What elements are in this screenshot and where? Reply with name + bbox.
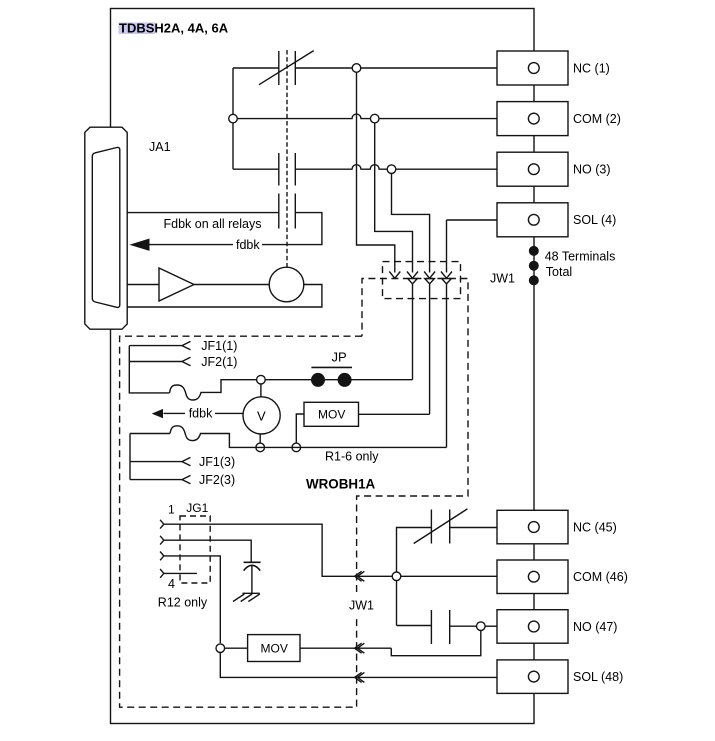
svg-text:JW1: JW1 [490,271,515,285]
svg-text:R12 only: R12 only [158,596,208,610]
svg-text:JA1: JA1 [149,140,171,154]
svg-text:JF2(3): JF2(3) [199,473,235,487]
svg-text:MOV: MOV [318,408,345,422]
svg-text:TDBSH2A, 4A, 6A: TDBSH2A, 4A, 6A [119,21,229,36]
svg-text:NO (3): NO (3) [573,163,611,177]
svg-text:fdbk: fdbk [236,238,260,252]
svg-text:48 Terminals: 48 Terminals [545,250,616,264]
svg-text:V: V [257,408,266,423]
svg-text:SOL (48): SOL (48) [573,670,623,684]
svg-text:NO (47): NO (47) [573,620,617,634]
svg-text:R1-6 only: R1-6 only [325,449,379,463]
svg-text:1: 1 [168,503,175,517]
svg-text:JF1(1): JF1(1) [201,339,237,353]
svg-text:JF2(1): JF2(1) [201,355,237,369]
svg-text:NC (45): NC (45) [573,520,617,534]
svg-text:NC (1): NC (1) [573,61,610,75]
svg-text:Fdbk on all relays: Fdbk on all relays [164,217,262,231]
svg-text:JG1: JG1 [186,501,208,515]
svg-text:fdbk: fdbk [189,407,213,421]
svg-text:JW1: JW1 [349,598,374,612]
svg-text:COM (46): COM (46) [573,570,628,584]
svg-text:JF1(3): JF1(3) [199,455,235,469]
svg-text:4: 4 [168,577,175,591]
svg-text:Total: Total [546,265,572,279]
svg-text:SOL (4): SOL (4) [573,213,616,227]
svg-text:JP: JP [332,350,347,365]
svg-text:WROBH1A: WROBH1A [306,477,376,492]
svg-text:MOV: MOV [261,641,288,655]
svg-text:COM (2): COM (2) [573,112,621,126]
